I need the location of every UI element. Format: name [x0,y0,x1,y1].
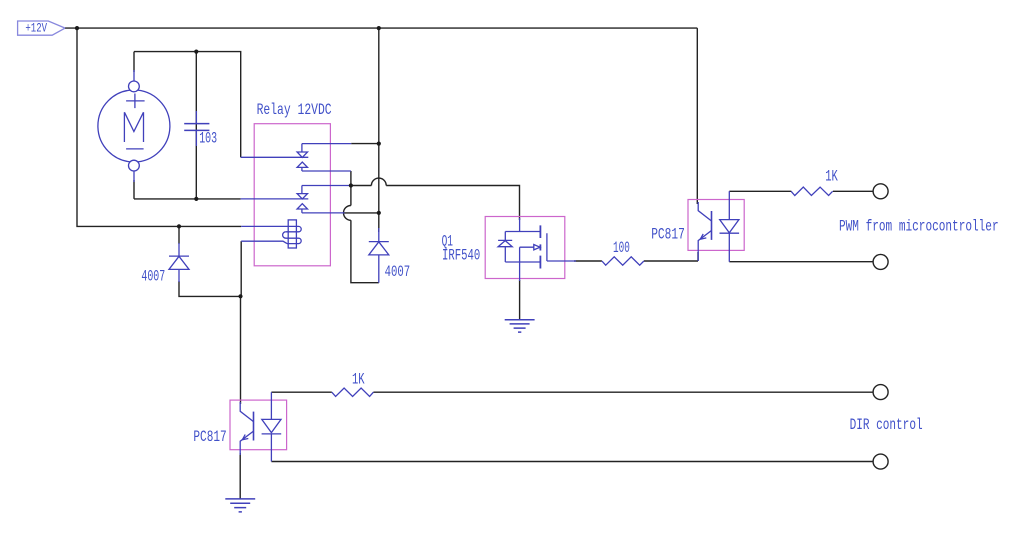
junction dot +12V flag [75,26,79,30]
wire coil node down to opto2 collector [240,296,242,404]
wire opto2 emitter to ground [239,453,241,499]
svg-text:IRF540: IRF540 [442,246,480,264]
svg-text:103: 103 [199,129,217,147]
opto U1 LED [720,191,740,261]
junction dot drain node [349,183,353,187]
diode D2 4007 [369,228,389,283]
resistor 100 [602,257,644,265]
ground below Q1 [505,320,535,332]
terminal DIR high [873,385,888,400]
opto U2 phototransistor [240,402,253,455]
relay contact 1 [241,144,352,171]
wire PWM return net [729,261,873,263]
wire diode D1 bottom to coil node [179,281,241,296]
junction dot contact2 NO / D2 [377,211,381,215]
junction dot contact1 NC [377,142,381,146]
junction dot top rail / contacts drop [377,26,381,30]
junction dot motor top / capacitor [194,50,198,54]
junction dot coil node [238,294,242,298]
svg-text:100: 100 [613,239,630,257]
mosfet Q1 box [485,217,565,279]
svg-text:PC817: PC817 [193,428,226,446]
svg-text:1K: 1K [825,168,838,186]
wire relay contact 2 NC terminal [350,185,351,187]
wire +12V top rail [65,27,697,29]
supply flag +12V [18,20,66,35]
wire PWM 1K net [729,190,873,192]
opto U1 phototransistor [698,202,711,261]
optocoupler U1 PC817 box [688,200,744,251]
ground below U2 [225,499,255,512]
svg-text:PC817: PC817 [651,226,685,244]
svg-text:4007: 4007 [141,268,165,286]
wire +12V drop to relay contacts [378,28,380,213]
capacitor C1 value 103 [184,111,209,146]
wire diode D2 cathode to +12V drop [378,213,380,232]
wire drain node down to D2 anode [351,186,379,283]
svg-text:PWM from microcontroller: PWM from microcontroller [839,218,999,236]
diode D1 4007 [169,243,189,282]
wire relay contact 1 NC terminal [351,143,379,145]
resistor 1K top [791,187,833,195]
wire capacitor branch [195,52,197,199]
wire relay contact 2 NO terminal [344,212,379,214]
svg-text:+12V: +12V [25,20,47,35]
wire +12V to opto1 collector [696,28,698,204]
terminal PWM low [873,254,888,269]
opto U2 LED [262,392,282,461]
svg-text:1K: 1K [352,370,365,388]
terminal DIR low [873,454,888,469]
wire coil pin B drop [240,241,242,296]
wire gate net: mosfet gate to 100 to opto1 emitter [574,252,698,261]
junction dot motor bottom / capacitor [194,197,198,201]
wire DIR 1K net [271,391,873,393]
wire hop over contact 2 NO line [344,206,351,221]
svg-text:4007: 4007 [385,263,411,281]
svg-text:Relay 12VDC: Relay 12VDC [257,101,332,119]
optocoupler U2 PC817 box [230,400,287,450]
wire mosfet source to ground [519,280,521,320]
wire relay contact 1 NO terminal down [350,171,352,186]
mosfet Q1 symbol [498,218,576,281]
relay contact 2 [241,186,350,213]
wire hop over +12V drop [371,178,386,185]
junction dot D1 top [177,224,181,228]
terminal PWM high [873,184,888,199]
svg-text:DIR control: DIR control [850,416,923,434]
resistor 1K bottom [332,388,374,396]
wire diode D1 top lead from +12V [178,226,180,244]
wire motor bottom net to relay common 2 [134,180,241,199]
relay K1 box [254,124,330,266]
motor M1 [98,70,170,182]
wire DIR return net [271,461,873,463]
wire +12V left rail down to coil [77,28,241,226]
relay coil [241,220,301,248]
wire drain run with hop [351,186,520,221]
wire motor top net to relay common 1 [134,52,241,158]
